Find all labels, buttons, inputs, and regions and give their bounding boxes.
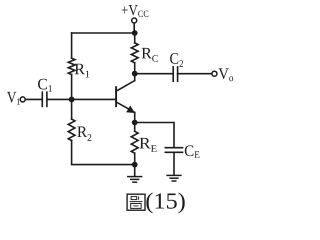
resistor RC	[131, 43, 138, 63]
wire CE bottom lead	[173, 152, 175, 175]
wire RC top lead	[134, 33, 136, 43]
wire Vcc stem	[133, 23, 135, 33]
node base junction	[69, 97, 75, 103]
resistor R1	[68, 58, 75, 74]
caption text (15)	[146, 193, 184, 214]
capacitor C2	[173, 67, 177, 81]
node ground junction	[132, 162, 138, 168]
transistor Q1	[116, 74, 135, 123]
wire emitter node to CE	[135, 123, 174, 148]
wire base segment	[47, 98, 115, 100]
node emitter junction	[132, 120, 138, 126]
resistor RE	[131, 131, 138, 153]
resistor R2	[68, 119, 75, 140]
label RE	[140, 138, 157, 152]
terminal Vi	[20, 97, 25, 102]
label Vi	[7, 92, 20, 105]
wire RE bottom lead	[134, 153, 136, 164]
wire R1 top lead	[71, 33, 73, 58]
terminal Vo	[212, 71, 217, 76]
label C2	[170, 53, 183, 67]
wire R2 top lead	[71, 99, 73, 119]
wire R2 bottom lead and bottom rail	[72, 141, 135, 165]
node collector junction	[132, 71, 138, 77]
label Vo	[218, 68, 233, 81]
node Vcc junction	[132, 30, 138, 36]
label R2	[77, 127, 91, 141]
label CE	[185, 145, 200, 157]
wire C2 to output	[178, 73, 212, 75]
ground below RE	[128, 165, 142, 183]
terminal Vcc	[132, 18, 137, 23]
wire top rail	[72, 32, 135, 34]
wire R1 bottom lead	[71, 75, 73, 100]
ground below CE	[167, 175, 181, 181]
label C1	[38, 79, 52, 92]
label +Vcc	[122, 5, 149, 17]
capacitor CE	[165, 148, 182, 153]
caption figure character 圖 drawn as strokes	[127, 194, 145, 210]
label RC	[142, 48, 158, 62]
label R1	[75, 64, 90, 78]
wire RC bottom lead	[134, 63, 136, 74]
wire RE top lead	[134, 123, 136, 132]
wire input segment	[25, 98, 42, 100]
capacitor C1	[42, 92, 47, 106]
wire collector to C2	[135, 73, 174, 75]
